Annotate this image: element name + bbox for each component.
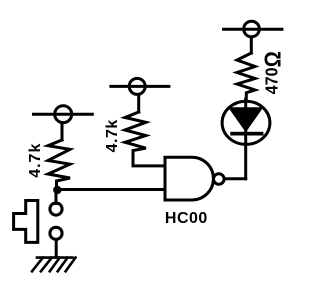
- svg-text:HC00: HC00: [165, 210, 208, 227]
- svg-text:Ω: Ω: [260, 51, 286, 67]
- svg-text:470: 470: [262, 68, 282, 95]
- svg-text:4.7k: 4.7k: [104, 119, 121, 152]
- svg-text:4.7k: 4.7k: [27, 143, 44, 178]
